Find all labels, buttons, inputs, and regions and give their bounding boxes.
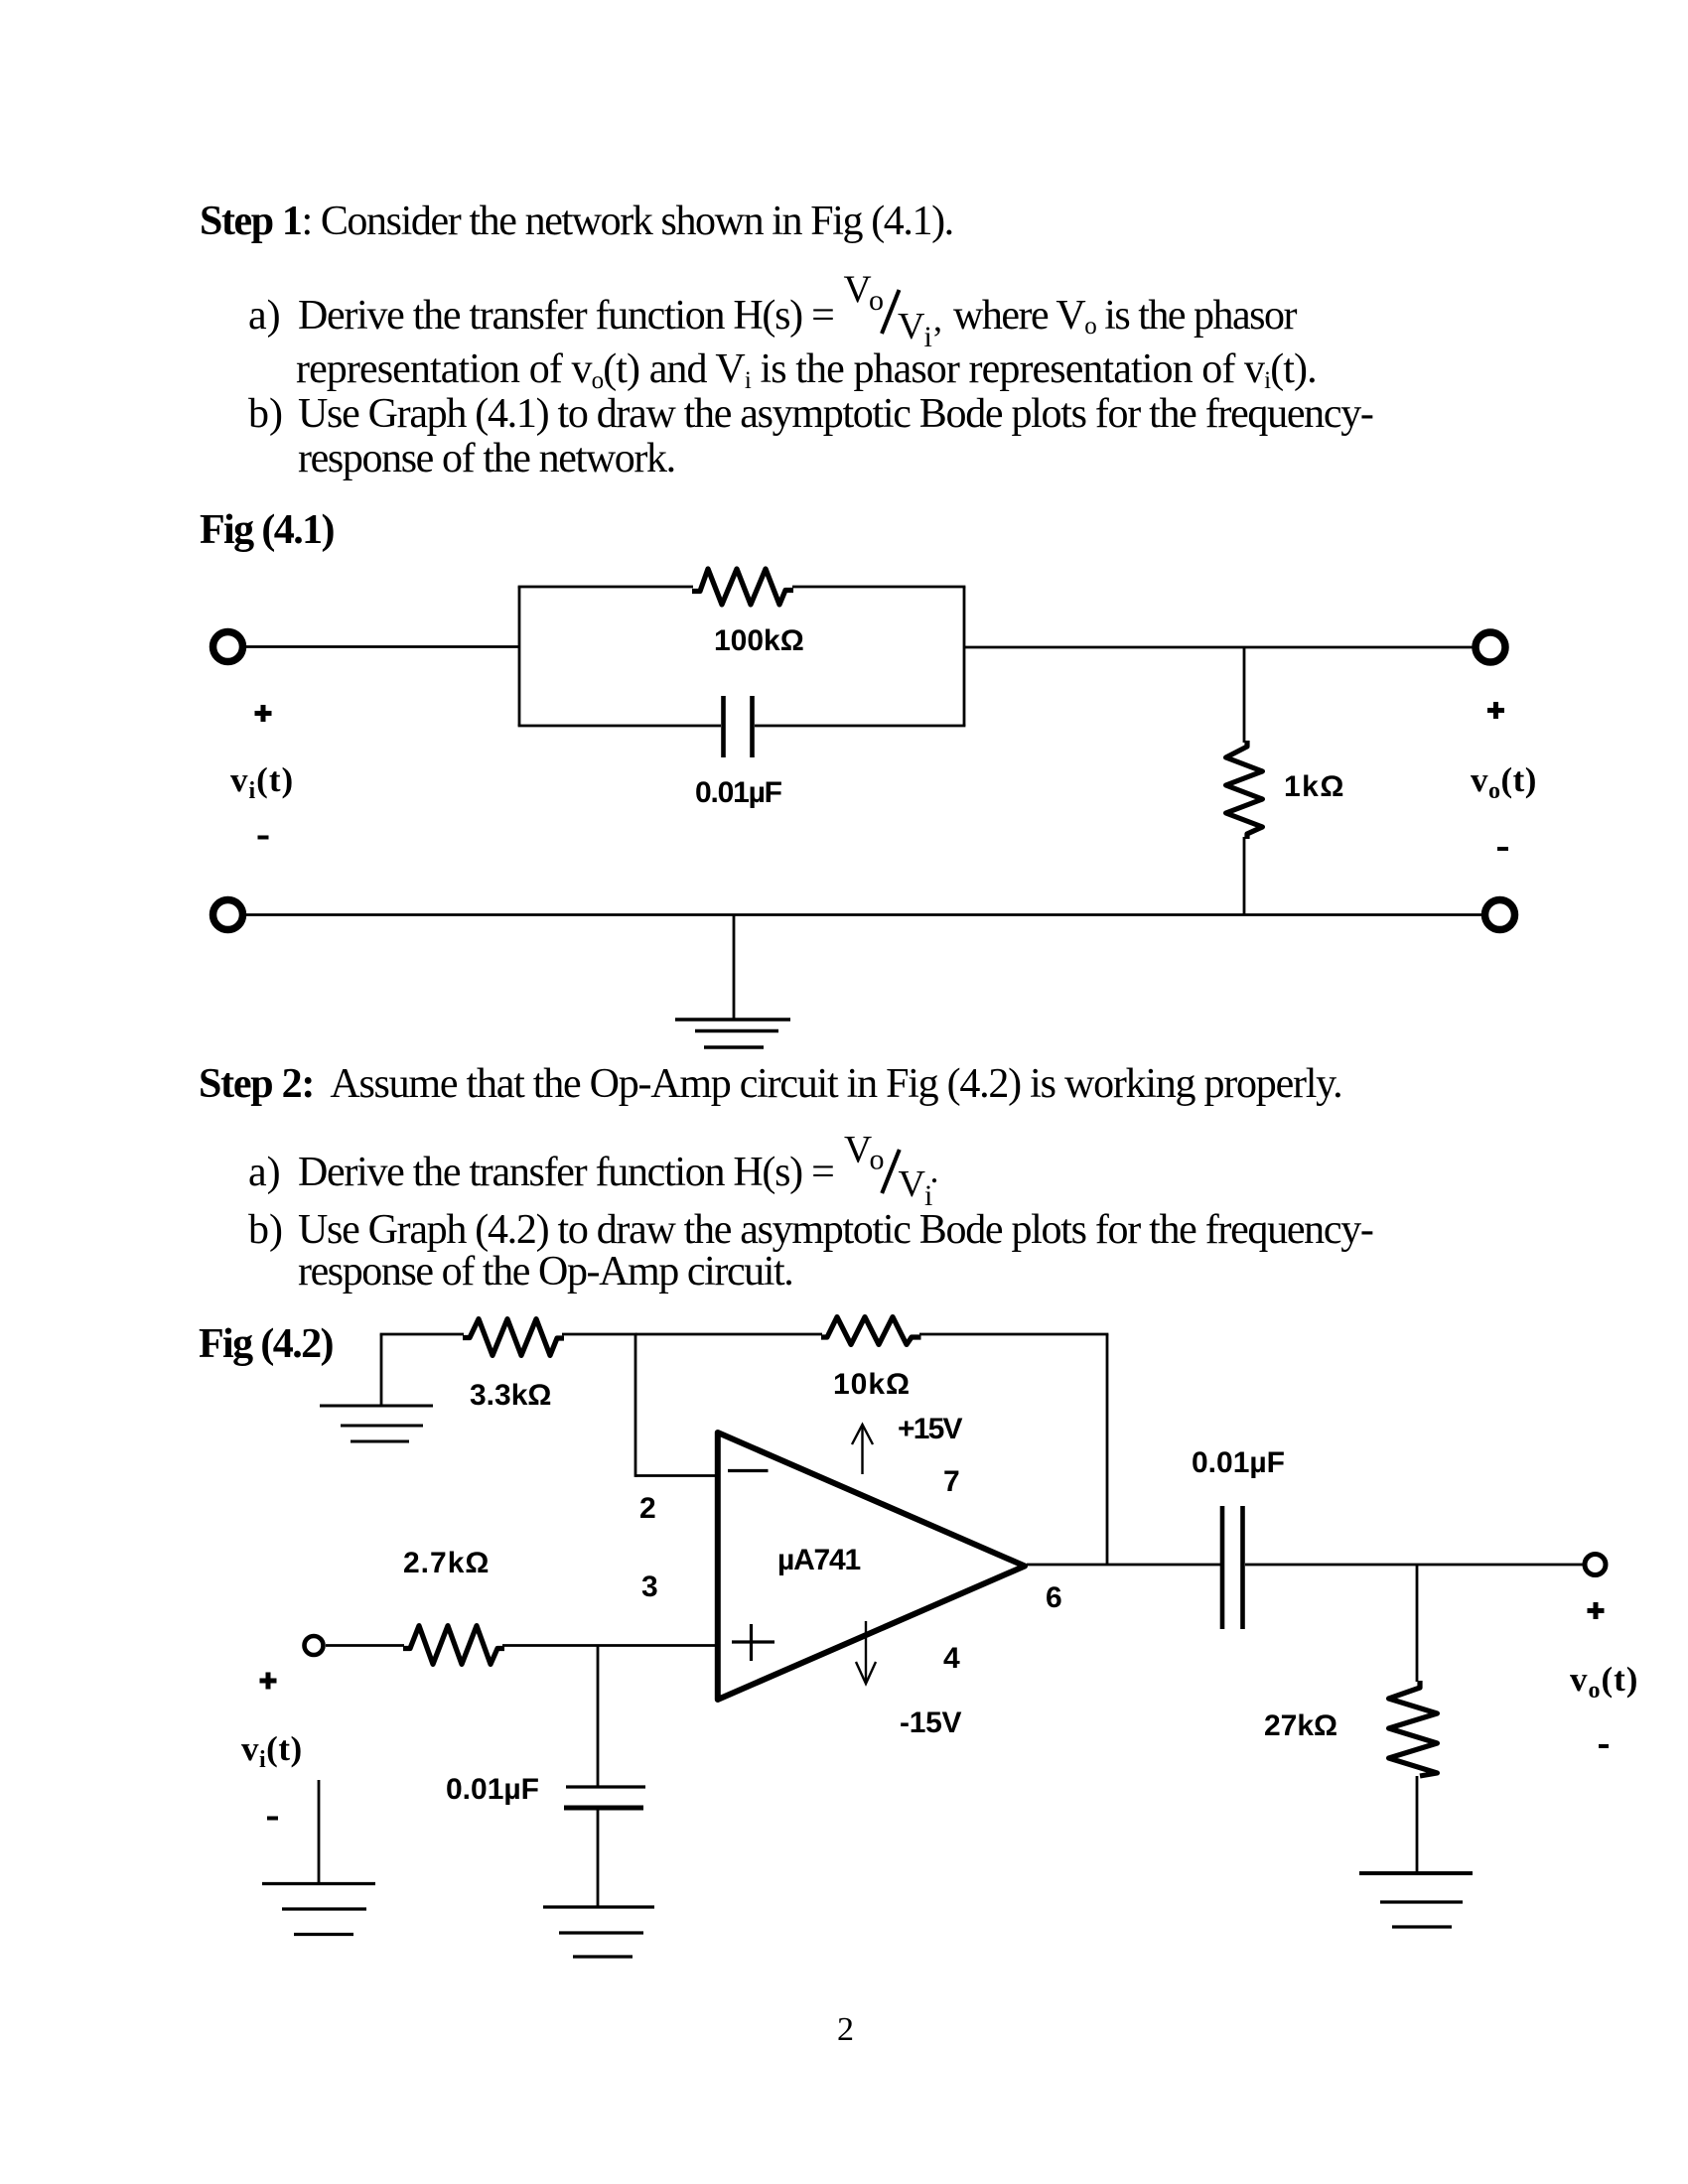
svg-text:0.01µF: 0.01µF (446, 1773, 539, 1806)
svg-text:Use Graph (4.1) to draw the as: Use Graph (4.1) to draw the asymptotic B… (298, 391, 1373, 437)
svg-text:2.7kΩ: 2.7kΩ (403, 1547, 490, 1579)
svg-text:0.01µF: 0.01µF (1192, 1446, 1285, 1479)
svg-text:response of the network.: response of the network. (298, 436, 675, 481)
capacitor C3 left plate (1220, 1506, 1225, 1629)
RC box top edge left segment (518, 586, 693, 589)
svg-text:2: 2 (639, 1492, 656, 1525)
svg-text:b): b) (248, 1207, 283, 1253)
svg-text:Fig (4.1): Fig (4.1) (200, 507, 335, 553)
svg-text:Fig (4.2): Fig (4.2) (199, 1321, 334, 1367)
ground symbol G2 line 2 (559, 1931, 643, 1934)
-15V arrow head (856, 1662, 876, 1684)
+15V arrow shaft (861, 1427, 863, 1474)
svg-text:,: , (933, 299, 942, 339)
+15V arrow head (852, 1425, 873, 1444)
minus sign vi (fig 4.2) (267, 1817, 278, 1821)
wire R3 to node 2 top (562, 1333, 636, 1336)
svg-text:.: . (930, 1151, 939, 1190)
wire R5 to non-inverting input pin 3 (502, 1644, 718, 1647)
svg-text:Use Graph (4.2) to draw the as: Use Graph (4.2) to draw the asymptotic B… (298, 1207, 1373, 1253)
svg-text:vi(t): vi(t) (230, 760, 294, 804)
svg-text:Derive the transfer function H: Derive the transfer function H(s) = (298, 293, 834, 339)
op-amp inverting minus mark (728, 1469, 769, 1472)
svg-text:o: o (870, 1144, 885, 1176)
feedback wire down to output node (1106, 1334, 1109, 1565)
svg-text:a): a) (248, 293, 281, 339)
capacitor C2 top plate (566, 1785, 645, 1788)
resistor R4 10k ohm feedback (821, 1317, 921, 1345)
wire R2 to bottom rail (1243, 837, 1246, 915)
ground symbol G1 line 2 (341, 1425, 423, 1428)
ground symbol G1 line 3 (351, 1440, 409, 1443)
wire R4 to feedback corner (919, 1333, 1108, 1336)
output terminal (fig 4.2) (1585, 1555, 1606, 1575)
resistor R3 3.3k ohm (463, 1319, 564, 1356)
svg-text:3.3kΩ: 3.3kΩ (470, 1379, 551, 1412)
input terminal (fig 4.2) (305, 1636, 324, 1655)
wire to inverting input pin 2 (635, 1474, 718, 1477)
svg-text:4: 4 (943, 1642, 960, 1675)
svg-text:-15V: -15V (900, 1706, 961, 1739)
capacitor C3 right plate (1240, 1506, 1245, 1629)
ground symbol G4 line 1 (1359, 1871, 1473, 1875)
wire node 2 to resistor R4 (635, 1333, 822, 1336)
ground symbol G4 line 2 (1380, 1900, 1463, 1903)
ground symbol G3 line 1 (262, 1882, 375, 1885)
svg-text:o: o (869, 284, 884, 317)
plus sign vi (fig 4.1) (255, 705, 272, 722)
svg-text:6: 6 (1046, 1581, 1062, 1614)
svg-text:where Vo is the phasor: where Vo is the phasor (953, 293, 1297, 340)
svg-text:vo(t): vo(t) (1570, 1660, 1638, 1704)
RC box right edge wire (963, 587, 966, 726)
svg-text:7: 7 (943, 1465, 960, 1498)
ground symbol (fig 4.1) line 3 (704, 1045, 764, 1048)
svg-text:b): b) (248, 391, 283, 437)
svg-text:+15V: +15V (898, 1413, 962, 1445)
svg-text:27kΩ: 27kΩ (1264, 1709, 1337, 1742)
plus sign vo (fig 4.1) (1487, 702, 1504, 719)
output terminal top-right (fig 4.1) (1476, 632, 1505, 662)
op-amp non-inverting plus mark (732, 1624, 774, 1661)
svg-text:0.01µF: 0.01µF (695, 776, 782, 809)
input source ground stub (318, 1780, 321, 1884)
plus sign vo (fig 4.2) (1588, 1602, 1605, 1619)
wire input terminal to R5 (326, 1644, 404, 1647)
ground symbol (fig 4.1) line 2 (695, 1029, 778, 1032)
capacitor C1 0.01uF right plate (750, 696, 755, 757)
svg-text:10kΩ: 10kΩ (833, 1368, 911, 1401)
bottom-left terminal (fig 4.1) (213, 900, 243, 930)
minus sign vi (fig 4.1) (258, 836, 269, 840)
svg-text:V: V (844, 268, 872, 311)
-15V arrow shaft (865, 1621, 867, 1682)
ground symbol G4 line 3 (1392, 1925, 1452, 1928)
op-amp U1 uA741 triangle (718, 1433, 1025, 1700)
capacitor C2 bottom plate (564, 1806, 643, 1811)
svg-text:V: V (844, 1129, 872, 1171)
bottom-right terminal (fig 4.1) (1485, 900, 1515, 930)
wire C3 to output terminal (1245, 1564, 1585, 1567)
equation slash (step 1) (882, 290, 900, 334)
resistor R5 2.7k ohm (403, 1626, 504, 1665)
equation slash (step 2) (882, 1150, 900, 1193)
svg-text:Step 1: Consider the network s: Step 1: Consider the network shown in Fi… (200, 199, 953, 244)
ground stub wire (fig 4.1) (733, 915, 736, 1021)
svg-text:3: 3 (641, 1570, 658, 1603)
resistor R2 1k ohm vertical (1226, 741, 1263, 839)
svg-text:µA741: µA741 (777, 1544, 861, 1576)
svg-text:1kΩ: 1kΩ (1284, 770, 1345, 803)
svg-text:response of the Op-Amp circuit: response of the Op-Amp circuit. (298, 1249, 792, 1295)
svg-text:representation of vo(t) and Vi: representation of vo(t) and Vi is the ph… (296, 346, 1317, 394)
wire input terminal to RC box (246, 645, 519, 648)
svg-text:100kΩ: 100kΩ (714, 624, 804, 657)
svg-text:Derive the transfer function H: Derive the transfer function H(s) = (298, 1150, 834, 1195)
svg-text:V: V (899, 1163, 926, 1205)
svg-text:vo(t): vo(t) (1471, 760, 1537, 804)
wire C2 to ground G2 (597, 1808, 600, 1907)
ground symbol (fig 4.1) line 1 (675, 1018, 790, 1021)
wire R6 to ground G4 (1416, 1776, 1419, 1873)
resistor R1 100k ohm on box top edge (692, 569, 793, 605)
RC box bottom edge right segment (755, 725, 965, 728)
svg-text:V: V (898, 306, 925, 347)
svg-text:a): a) (248, 1150, 281, 1195)
RC box top edge right segment (792, 586, 965, 589)
wire junction down to R6 (1416, 1565, 1419, 1682)
wire junction down to capacitor C2 (597, 1646, 600, 1788)
capacitor C1 0.01uF left plate (721, 696, 726, 757)
ground symbol G2 line 3 (573, 1955, 633, 1958)
ground symbol G2 line 1 (543, 1905, 654, 1908)
ground symbol G3 line 3 (294, 1933, 353, 1936)
wire to resistor R3 (380, 1333, 464, 1336)
plus sign vi (fig 4.2) (260, 1673, 277, 1690)
wire ground up to R3 (fig 4.2) (380, 1334, 383, 1407)
ground symbol G3 line 2 (282, 1907, 366, 1910)
RC box left edge wire (518, 587, 521, 726)
wire node down to pin 2 level (634, 1334, 637, 1477)
wire RC box to output terminal (964, 646, 1477, 649)
input terminal top-left (fig 4.1) (213, 632, 243, 662)
resistor R6 27k ohm vertical (1389, 1681, 1438, 1776)
svg-text:vi(t): vi(t) (241, 1729, 303, 1773)
svg-text:2: 2 (837, 2011, 854, 2048)
svg-text:Step 2: Assume that the Op-Am: Step 2: Assume that the Op-Amp circuit i… (199, 1061, 1341, 1107)
ground symbol G1 line 1 (320, 1405, 433, 1408)
minus sign vo (fig 4.2) (1599, 1744, 1609, 1748)
minus sign vo (fig 4.1) (1497, 847, 1508, 851)
wire op-amp output to capacitor C3 (1027, 1564, 1220, 1567)
bottom rail wire (fig 4.1) (245, 913, 1482, 916)
wire junction down to R2 (1243, 647, 1246, 743)
RC box bottom edge left segment (518, 725, 721, 728)
